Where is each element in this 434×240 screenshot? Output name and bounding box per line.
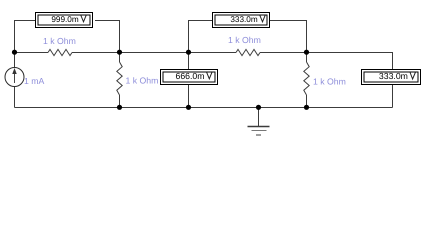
voltmeter M2 box (213, 13, 270, 28)
wire: voltmeter M2 right to node D (270, 21, 307, 53)
junction dot rail-M3 (186, 105, 191, 110)
wire: node C to R3 (189, 52, 237, 54)
svg-text:333.0m: 333.0m (379, 71, 408, 81)
resistor R4 zigzag (vertical) (304, 62, 309, 95)
wire: node A down to current source I1 (14, 53, 16, 68)
junction dot rail-R2 (117, 105, 122, 110)
svg-text:1 k Ohm: 1 k Ohm (228, 35, 261, 45)
svg-text:333.0m: 333.0m (230, 15, 257, 24)
wire: voltmeter M3 down to bottom rail (188, 84, 190, 108)
wire: voltmeter M1 right to node B (95, 21, 120, 53)
svg-text:999.0m: 999.0m (51, 15, 78, 24)
junction dot node C (186, 50, 191, 55)
svg-text:666.0m: 666.0m (176, 71, 205, 81)
current source I1 circle (5, 68, 24, 87)
wire: R2 down to bottom rail (119, 95, 121, 108)
wire: node C up-stub and to voltmeter M2 left (189, 21, 213, 53)
svg-text:1 k Ohm: 1 k Ohm (43, 36, 76, 46)
wire: voltmeter M4 down to bottom rail (392, 84, 394, 108)
junction dot rail-R4 (304, 105, 309, 110)
wire: node D to right column and down to voltmeter M4 (307, 53, 393, 70)
wire: R1 to node B (72, 52, 120, 54)
voltmeter M1 box (36, 13, 93, 28)
wire: current source I1 down to bottom rail (14, 87, 16, 108)
svg-text:1 k Ohm: 1 k Ohm (313, 77, 346, 87)
resistor R3 zigzag (236, 49, 260, 55)
wire: node A up-stub and to voltmeter M1 left (15, 21, 36, 53)
wire: node D down to R4 (306, 53, 308, 63)
wire: R4 down to bottom rail (306, 95, 308, 108)
resistor R2 zigzag (vertical) (117, 62, 122, 95)
current source I1 arrow (13, 69, 16, 83)
ground symbol (248, 108, 270, 136)
junction dot rail-ground (256, 105, 261, 110)
wire: main row node A to R1 (15, 52, 49, 54)
voltmeter M3 box (161, 70, 218, 85)
wire: R3 to node D (260, 52, 307, 54)
wire: node B to node C (120, 52, 189, 54)
svg-text:1 mA: 1 mA (24, 76, 44, 86)
voltmeter M4 box (362, 70, 421, 85)
svg-text:1 k Ohm: 1 k Ohm (126, 76, 159, 86)
junction dot node A (12, 50, 17, 55)
wire: node C down to voltmeter M3 (188, 53, 190, 70)
wire: node B down to R2 (119, 53, 121, 63)
junction dot node B (117, 50, 122, 55)
resistor R1 zigzag (48, 49, 72, 55)
junction dot node D (304, 50, 309, 55)
wire: bottom rail (15, 107, 393, 109)
